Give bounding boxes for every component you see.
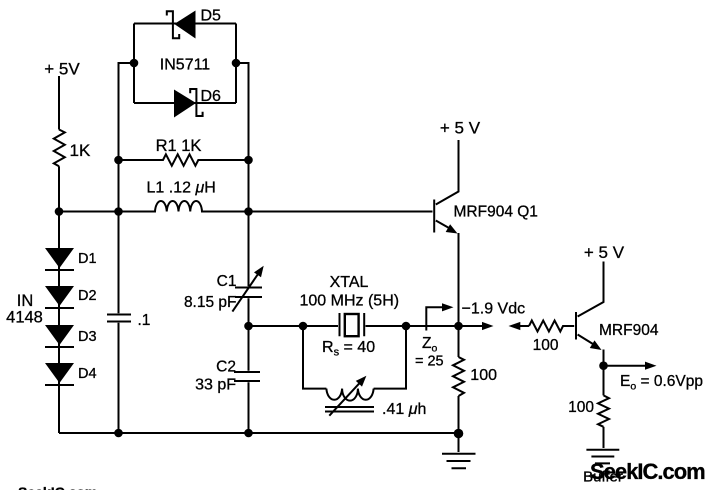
svg-text:R1 1K: R1 1K — [156, 137, 202, 155]
capacitor C2 — [234, 372, 260, 381]
wire bottom rail — [59, 432, 459, 434]
svg-text:+ 5 V: + 5 V — [584, 243, 625, 262]
diode D2 — [45, 286, 74, 308]
wire left rail top — [58, 76, 60, 130]
wire Q2 resistor to ground — [603, 427, 605, 448]
transistor Q2 collector — [578, 262, 604, 317]
node R1 right — [244, 156, 253, 165]
node box right — [232, 59, 241, 68]
node L1 right branch — [244, 207, 253, 216]
resistor 100 (Q2 emitter) — [598, 395, 609, 426]
diode D6 (schottky, pointing right) — [174, 89, 203, 118]
node XTAL right — [402, 322, 411, 331]
wire Q2 emitter down — [603, 350, 605, 396]
svg-text:XTAL: XTAL — [330, 274, 369, 291]
diode D1 — [45, 248, 74, 270]
svg-text:.41 μh: .41 μh — [382, 401, 426, 418]
svg-text:4148: 4148 — [6, 309, 43, 327]
node ground junction — [454, 429, 464, 439]
transistor Q1 base bar — [433, 200, 435, 233]
capacitor C1 (variable) — [232, 266, 263, 312]
diode D4 — [45, 363, 74, 385]
node R1 left — [114, 156, 123, 165]
wire box bottom (D6 branch) — [134, 102, 236, 104]
svg-text:Rs = 40: Rs = 40 — [322, 339, 375, 359]
svg-text:IN5711: IN5711 — [160, 57, 211, 74]
wire from box-right node to right branch — [236, 63, 249, 433]
resistor R1 (with wires) — [119, 154, 249, 165]
crystal XTAL — [340, 313, 365, 336]
svg-text:100: 100 — [533, 337, 559, 354]
svg-text:100: 100 — [568, 399, 594, 416]
svg-text:100: 100 — [470, 367, 497, 384]
wire XTAL branch right — [366, 325, 459, 327]
svg-text:D4: D4 — [78, 366, 97, 382]
inductor L1 (with wires) — [59, 201, 433, 211]
wire from box-left node down to bottom rail — [119, 63, 135, 433]
diode D3 — [45, 325, 74, 347]
svg-text:D6: D6 — [201, 88, 222, 105]
node box left — [130, 59, 139, 68]
resistor 100 (Q2 base series) — [529, 321, 574, 332]
wire Q1 emitter down — [458, 233, 460, 357]
inductor .41uh (variable, in loop) — [325, 376, 374, 416]
transistor Q2 base bar — [575, 312, 577, 340]
transistor Q2 emitter with arrow — [578, 335, 602, 351]
ground (buffer stage) — [586, 450, 619, 464]
svg-text:.1: .1 — [138, 312, 151, 329]
svg-text:D2: D2 — [78, 288, 97, 304]
transistor Q1 collector — [436, 140, 459, 205]
node left rail / L1 — [55, 207, 64, 216]
svg-text:D5: D5 — [201, 8, 222, 25]
transistor Q1 emitter with arrow — [436, 221, 458, 234]
svg-text:IN: IN — [17, 292, 34, 310]
wire XTAL branch left — [249, 325, 339, 327]
svg-text:8.15 pF: 8.15 pF — [184, 294, 237, 311]
svg-text:Eo = 0.6Vpp: Eo = 0.6Vpp — [620, 373, 703, 393]
resistor 1K (left rail vertical zigzag) — [54, 130, 65, 167]
interstage arrow (points left) — [509, 322, 530, 330]
wire box left side — [133, 24, 135, 104]
output arrow right of Q1 emitter node — [459, 322, 494, 330]
wire left rail lower — [58, 166, 60, 433]
resistor 100 (Q1 emitter) — [453, 357, 464, 396]
node bottom rail right branch — [244, 429, 253, 438]
node Q1 emitter / XTAL line — [454, 322, 463, 331]
svg-text:Buffer: Buffer — [583, 469, 623, 486]
svg-text:+ 5 V: + 5 V — [440, 119, 481, 138]
node XTAL left — [299, 322, 308, 331]
node L1 left branch — [114, 207, 123, 216]
svg-text:L1 .12 μH: L1 .12 μH — [147, 180, 216, 197]
svg-text:+ 5V: + 5V — [44, 60, 80, 79]
svg-text:−1.9 Vdc: −1.9 Vdc — [462, 301, 526, 318]
output arrow Eo — [604, 362, 657, 370]
ground (main) — [442, 434, 476, 469]
node bottom rail left branch — [114, 429, 123, 438]
svg-text:C1: C1 — [217, 273, 237, 290]
svg-text:SeekIC.com: SeekIC.com — [18, 484, 97, 490]
wire resistor to bottom rail — [458, 396, 460, 434]
svg-text:1K: 1K — [70, 141, 91, 160]
svg-text:C2: C2 — [216, 359, 236, 376]
wire box top (D5 branch) — [134, 23, 236, 25]
bent arrow (dc level pointer) — [426, 303, 453, 330]
svg-text:Zo: Zo — [422, 335, 437, 355]
svg-text:100 MHz (5H): 100 MHz (5H) — [300, 293, 400, 310]
svg-text:D3: D3 — [78, 329, 97, 345]
capacitor .1 — [107, 315, 131, 322]
node Q2 emitter output — [599, 361, 608, 370]
svg-text:= 25: = 25 — [415, 354, 444, 370]
svg-text:D1: D1 — [78, 251, 97, 267]
wire tuning loop (left + bottom + right) — [303, 326, 406, 389]
wire box right side — [235, 24, 237, 104]
svg-text:33 pF: 33 pF — [195, 377, 236, 394]
svg-text:MRF904: MRF904 — [599, 322, 659, 339]
svg-text:MRF904 Q1: MRF904 Q1 — [454, 204, 538, 221]
diode D5 (schottky, pointing left) — [167, 11, 196, 39]
node C1/C2 junction — [244, 322, 253, 331]
